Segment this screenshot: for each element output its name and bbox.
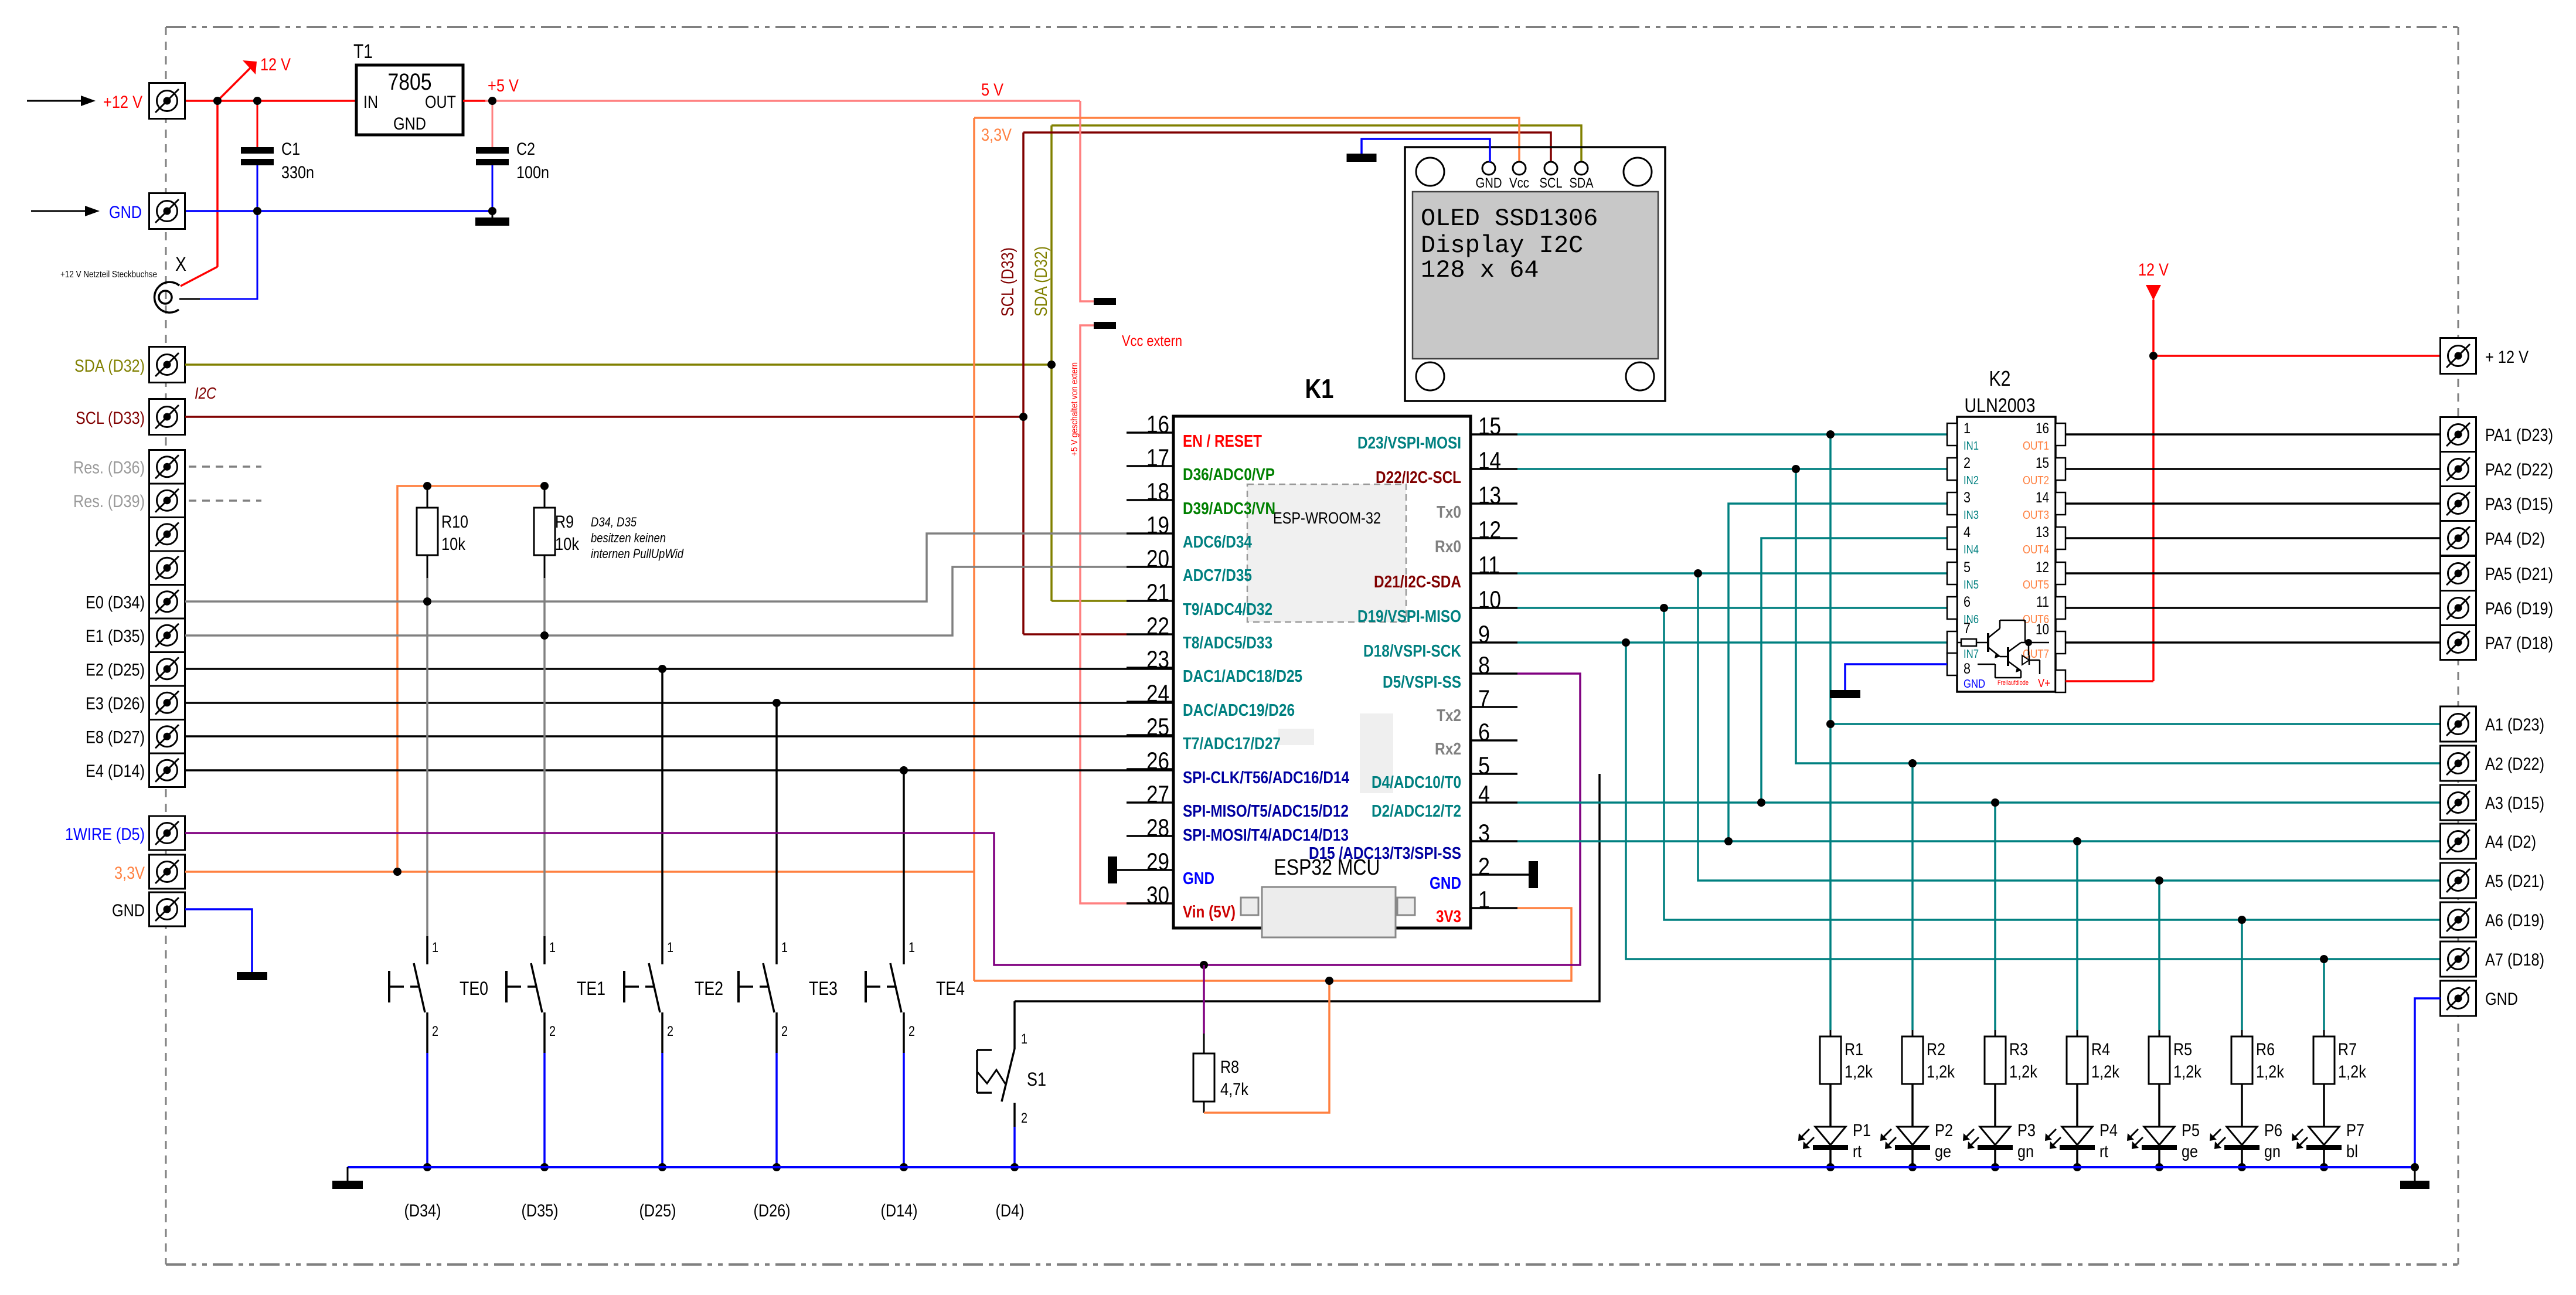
svg-text:GND: GND <box>393 114 426 134</box>
svg-text:D39/ADC3/VN: D39/ADC3/VN <box>1183 499 1275 518</box>
svg-text:PA1 (D23): PA1 (D23) <box>2485 426 2553 445</box>
svg-text:9: 9 <box>1478 620 1490 648</box>
svg-text:10k: 10k <box>555 535 580 554</box>
svg-text:ge: ge <box>2182 1142 2198 1161</box>
svg-text:SCL (D33): SCL (D33) <box>998 247 1018 317</box>
svg-text:Vcc extern: Vcc extern <box>1122 332 1182 349</box>
svg-text:I2C: I2C <box>195 384 217 402</box>
svg-text:30: 30 <box>1146 881 1169 909</box>
svg-text:1: 1 <box>1021 1031 1027 1047</box>
svg-text:1: 1 <box>432 940 438 956</box>
svg-text:internen PullUpWid: internen PullUpWid <box>591 546 684 561</box>
svg-text:D19/VSPI-MISO: D19/VSPI-MISO <box>1357 607 1461 626</box>
svg-text:21: 21 <box>1146 579 1169 606</box>
svg-text:2: 2 <box>1021 1110 1027 1126</box>
svg-text:IN1: IN1 <box>1964 440 1979 453</box>
svg-text:Display I2C: Display I2C <box>1421 232 1583 260</box>
svg-text:11: 11 <box>1478 551 1500 579</box>
svg-text:Res. (D39): Res. (D39) <box>73 492 145 511</box>
svg-text:T8/ADC5/D33: T8/ADC5/D33 <box>1183 634 1272 652</box>
svg-text:4,7k: 4,7k <box>1220 1080 1249 1099</box>
svg-text:SDA (D32): SDA (D32) <box>74 356 145 376</box>
svg-text:P7: P7 <box>2346 1121 2364 1140</box>
svg-text:D18/VSPI-SCK: D18/VSPI-SCK <box>1363 642 1461 661</box>
svg-text:ADC6/D34: ADC6/D34 <box>1183 533 1252 552</box>
svg-text:3: 3 <box>1478 819 1490 847</box>
svg-text:DAC/ADC19/D26: DAC/ADC19/D26 <box>1183 701 1295 720</box>
svg-text:Tx0: Tx0 <box>1437 503 1461 522</box>
svg-text:4: 4 <box>1478 780 1490 808</box>
svg-text:19: 19 <box>1146 511 1169 539</box>
svg-text:+12 V: +12 V <box>103 93 142 112</box>
svg-text:15: 15 <box>2036 455 2049 471</box>
svg-text:ESP-WROOM-32: ESP-WROOM-32 <box>1273 509 1381 527</box>
svg-text:GND: GND <box>109 203 142 222</box>
svg-text:1: 1 <box>1478 886 1490 913</box>
svg-text:1: 1 <box>781 940 788 956</box>
svg-text:K1: K1 <box>1305 373 1334 404</box>
svg-text:GND: GND <box>1476 175 1502 191</box>
svg-text:A3 (D15): A3 (D15) <box>2485 794 2544 813</box>
svg-text:R7: R7 <box>2338 1040 2357 1059</box>
svg-text:10k: 10k <box>441 535 466 554</box>
svg-text:V+: V+ <box>2038 677 2050 690</box>
svg-text:27: 27 <box>1146 780 1169 808</box>
svg-text:P6: P6 <box>2264 1121 2282 1140</box>
svg-text:ULN2003: ULN2003 <box>1965 395 2036 417</box>
svg-text:1,2k: 1,2k <box>2173 1062 2202 1082</box>
svg-text:OUT3: OUT3 <box>2023 509 2049 522</box>
svg-text:GND: GND <box>1964 678 1985 691</box>
svg-text:R10: R10 <box>441 512 468 532</box>
svg-text:TE4: TE4 <box>936 978 965 999</box>
svg-text:ADC7/D35: ADC7/D35 <box>1183 566 1252 585</box>
svg-text:3V3: 3V3 <box>1436 907 1461 926</box>
svg-text:+ 12 V: + 12 V <box>2485 348 2529 367</box>
svg-text:T9/ADC4/D32: T9/ADC4/D32 <box>1183 600 1272 619</box>
svg-text:1: 1 <box>549 940 556 956</box>
svg-text:SDA: SDA <box>1570 175 1594 191</box>
svg-text:GND: GND <box>1430 874 1461 893</box>
svg-text:GND: GND <box>112 901 145 920</box>
svg-text:11: 11 <box>2036 594 2049 610</box>
svg-text:X: X <box>175 253 186 276</box>
svg-text:gn: gn <box>2264 1142 2281 1161</box>
svg-text:(D4): (D4) <box>996 1201 1025 1221</box>
svg-text:7: 7 <box>1964 620 1971 637</box>
svg-text:TE1: TE1 <box>577 978 605 999</box>
svg-text:PA5 (D21): PA5 (D21) <box>2485 565 2553 584</box>
svg-text:IN: IN <box>363 93 378 112</box>
svg-text:1,2k: 1,2k <box>2256 1062 2285 1082</box>
svg-text:OUT2: OUT2 <box>2023 474 2049 487</box>
svg-text:15: 15 <box>1478 412 1501 440</box>
svg-text:R3: R3 <box>2009 1040 2028 1059</box>
svg-text:23: 23 <box>1146 645 1169 673</box>
svg-text:Freilaufdiode: Freilaufdiode <box>1997 679 2029 686</box>
svg-text:22: 22 <box>1146 612 1169 640</box>
svg-text:6: 6 <box>1964 594 1971 610</box>
svg-text:D22/I2C-SCL: D22/I2C-SCL <box>1376 468 1461 487</box>
svg-text:T7/ADC17/D27: T7/ADC17/D27 <box>1183 735 1281 753</box>
svg-text:R1: R1 <box>1845 1040 1863 1059</box>
svg-text:7: 7 <box>1478 685 1490 712</box>
svg-text:D4/ADC10/T0: D4/ADC10/T0 <box>1372 773 1461 792</box>
svg-text:E1 (D35): E1 (D35) <box>86 627 145 646</box>
svg-text:1: 1 <box>667 940 673 956</box>
svg-text:12: 12 <box>2036 559 2049 576</box>
svg-text:26: 26 <box>1146 747 1169 774</box>
svg-text:E3 (D26): E3 (D26) <box>86 694 145 713</box>
svg-text:24: 24 <box>1146 679 1169 707</box>
svg-text:A6 (D19): A6 (D19) <box>2485 911 2544 930</box>
svg-text:3,3V: 3,3V <box>114 864 145 883</box>
svg-text:gn: gn <box>2017 1142 2034 1161</box>
svg-text:E4 (D14): E4 (D14) <box>86 762 145 781</box>
svg-text:OLED SSD1306: OLED SSD1306 <box>1421 205 1598 233</box>
svg-text:P1: P1 <box>1853 1121 1871 1140</box>
svg-text:1,2k: 1,2k <box>1927 1062 1955 1082</box>
svg-text:D5/VSPI-SS: D5/VSPI-SS <box>1383 673 1461 692</box>
svg-text:20: 20 <box>1146 545 1169 572</box>
svg-text:3,3V: 3,3V <box>981 125 1012 145</box>
svg-text:3: 3 <box>1964 490 1971 506</box>
svg-text:rt: rt <box>2099 1142 2109 1161</box>
svg-text:12 V: 12 V <box>260 55 291 74</box>
svg-text:D36/ADC0/VP: D36/ADC0/VP <box>1183 465 1275 484</box>
svg-text:16: 16 <box>1146 410 1169 438</box>
svg-text:28: 28 <box>1146 814 1169 841</box>
svg-text:bl: bl <box>2346 1142 2358 1161</box>
svg-text:+5 V: +5 V <box>488 76 519 96</box>
svg-text:Vin (5V): Vin (5V) <box>1183 903 1236 922</box>
svg-text:2: 2 <box>432 1024 438 1039</box>
svg-text:SPI-CLK/T56/ADC16/D14: SPI-CLK/T56/ADC16/D14 <box>1183 769 1349 787</box>
svg-text:SCL: SCL <box>1540 175 1563 191</box>
svg-text:2: 2 <box>667 1024 673 1039</box>
svg-text:R2: R2 <box>1927 1040 1945 1059</box>
svg-text:R9: R9 <box>555 512 574 532</box>
svg-text:D23/VSPI-MOSI: D23/VSPI-MOSI <box>1357 434 1461 453</box>
svg-text:+12 V Netzteil Steckbuchse: +12 V Netzteil Steckbuchse <box>60 270 157 280</box>
svg-text:10: 10 <box>2036 621 2049 638</box>
svg-text:TE3: TE3 <box>809 978 838 999</box>
svg-text:D21/I2C-SDA: D21/I2C-SDA <box>1374 573 1461 592</box>
svg-text:TE0: TE0 <box>460 978 488 999</box>
svg-text:D15 /ADC13/T3/SPI-SS: D15 /ADC13/T3/SPI-SS <box>1309 844 1461 863</box>
svg-text:PA4 (D2): PA4 (D2) <box>2485 529 2545 549</box>
svg-text:1,2k: 1,2k <box>2091 1062 2120 1082</box>
svg-text:PA7 (D18): PA7 (D18) <box>2485 634 2553 653</box>
svg-text:P2: P2 <box>1935 1121 1953 1140</box>
svg-text:PA2 (D22): PA2 (D22) <box>2485 460 2553 480</box>
svg-text:4: 4 <box>1964 524 1971 541</box>
svg-text:A7 (D18): A7 (D18) <box>2485 950 2544 970</box>
svg-text:GND: GND <box>2485 990 2518 1009</box>
svg-text:1,2k: 1,2k <box>2009 1062 2038 1082</box>
svg-text:R8: R8 <box>1220 1058 1239 1077</box>
svg-text:SPI-MISO/T5/ADC15/D12: SPI-MISO/T5/ADC15/D12 <box>1183 802 1349 821</box>
svg-text:T1: T1 <box>353 40 373 63</box>
svg-text:Res. (D36): Res. (D36) <box>73 458 145 477</box>
svg-text:P4: P4 <box>2099 1121 2118 1140</box>
svg-text:(D25): (D25) <box>639 1201 676 1221</box>
svg-text:E0 (D34): E0 (D34) <box>86 593 145 612</box>
svg-text:SDA (D32): SDA (D32) <box>1032 246 1051 317</box>
svg-text:1WIRE (D5): 1WIRE (D5) <box>65 825 145 844</box>
svg-text:E2 (D25): E2 (D25) <box>86 660 145 679</box>
svg-text:A4 (D2): A4 (D2) <box>2485 832 2536 852</box>
svg-text:330n: 330n <box>281 163 314 182</box>
svg-text:(D35): (D35) <box>522 1201 559 1221</box>
svg-text:OUT1: OUT1 <box>2023 440 2049 453</box>
svg-text:1,2k: 1,2k <box>1845 1062 1873 1082</box>
svg-text:2: 2 <box>781 1024 788 1039</box>
svg-text:14: 14 <box>1478 447 1501 474</box>
svg-text:GND: GND <box>1183 869 1214 888</box>
svg-text:8: 8 <box>1964 661 1971 677</box>
svg-text:12: 12 <box>1478 516 1501 543</box>
svg-text:ge: ge <box>1935 1142 1951 1161</box>
svg-text:OUT5: OUT5 <box>2023 579 2049 592</box>
svg-text:IN4: IN4 <box>1964 543 1979 556</box>
svg-text:13: 13 <box>2036 524 2049 541</box>
svg-text:SPI-MOSI/T4/ADC14/D13: SPI-MOSI/T4/ADC14/D13 <box>1183 826 1349 845</box>
svg-text:OUT: OUT <box>425 93 456 112</box>
svg-text:29: 29 <box>1146 848 1169 875</box>
svg-text:IN7: IN7 <box>1964 648 1979 661</box>
svg-text:A1 (D23): A1 (D23) <box>2485 715 2544 735</box>
svg-text:14: 14 <box>2036 490 2049 506</box>
svg-text:Rx2: Rx2 <box>1435 740 1461 759</box>
svg-text:R6: R6 <box>2256 1040 2275 1059</box>
svg-text:R5: R5 <box>2173 1040 2192 1059</box>
svg-text:K2: K2 <box>1989 366 2011 390</box>
svg-text:D34, D35: D34, D35 <box>591 515 637 529</box>
svg-text:13: 13 <box>1478 481 1501 509</box>
svg-text:128 x 64: 128 x 64 <box>1421 256 1539 284</box>
svg-text:5: 5 <box>1478 752 1490 779</box>
svg-text:S1: S1 <box>1027 1069 1046 1090</box>
svg-text:6: 6 <box>1478 718 1490 746</box>
svg-text:Tx2: Tx2 <box>1437 706 1461 725</box>
svg-text:12 V: 12 V <box>2138 260 2169 280</box>
svg-text:A2 (D22): A2 (D22) <box>2485 754 2544 774</box>
svg-text:(D34): (D34) <box>404 1201 441 1221</box>
svg-text:10: 10 <box>1478 586 1501 613</box>
svg-text:8: 8 <box>1478 651 1490 679</box>
svg-text:P5: P5 <box>2182 1121 2200 1140</box>
svg-text:PA6 (D19): PA6 (D19) <box>2485 599 2553 618</box>
svg-text:(D26): (D26) <box>754 1201 791 1221</box>
svg-text:(D14): (D14) <box>881 1201 918 1221</box>
svg-text:EN / RESET: EN / RESET <box>1183 432 1262 451</box>
svg-text:rt: rt <box>1853 1142 1862 1161</box>
svg-text:17: 17 <box>1146 444 1169 471</box>
svg-text:5 V: 5 V <box>981 80 1003 100</box>
svg-text:PA3 (D15): PA3 (D15) <box>2485 495 2553 514</box>
svg-text:5: 5 <box>1964 559 1971 576</box>
svg-text:SCL (D33): SCL (D33) <box>76 409 145 428</box>
svg-text:IN5: IN5 <box>1964 579 1979 592</box>
svg-text:18: 18 <box>1146 478 1169 505</box>
svg-text:TE2: TE2 <box>695 978 723 999</box>
svg-text:2: 2 <box>1478 852 1490 880</box>
svg-text:D2/ADC12/T2: D2/ADC12/T2 <box>1372 802 1461 821</box>
svg-text:1: 1 <box>1964 420 1971 437</box>
svg-text:1: 1 <box>908 940 915 956</box>
svg-text:OUT4: OUT4 <box>2023 543 2049 556</box>
svg-text:C2: C2 <box>516 140 535 159</box>
svg-text:16: 16 <box>2036 420 2049 437</box>
svg-text:Vcc: Vcc <box>1509 175 1529 191</box>
svg-text:A5 (D21): A5 (D21) <box>2485 872 2544 891</box>
svg-text:IN3: IN3 <box>1964 509 1979 522</box>
svg-text:25: 25 <box>1146 713 1169 740</box>
svg-text:C1: C1 <box>281 140 300 159</box>
svg-text:Rx0: Rx0 <box>1435 538 1461 556</box>
svg-text:2: 2 <box>908 1024 915 1039</box>
svg-text:E8 (D27): E8 (D27) <box>86 728 145 747</box>
svg-text:P3: P3 <box>2017 1121 2036 1140</box>
svg-text:7805: 7805 <box>388 69 432 95</box>
svg-text:100n: 100n <box>516 163 549 182</box>
svg-text:2: 2 <box>549 1024 556 1039</box>
svg-text:1,2k: 1,2k <box>2338 1062 2367 1082</box>
svg-text:2: 2 <box>1964 455 1971 471</box>
svg-text:IN2: IN2 <box>1964 474 1979 487</box>
svg-text:R4: R4 <box>2091 1040 2110 1059</box>
svg-text:DAC1/ADC18/D25: DAC1/ADC18/D25 <box>1183 667 1302 686</box>
svg-text:besitzen keinen: besitzen keinen <box>591 531 666 545</box>
svg-text:+5 V geschaltet von extern: +5 V geschaltet von extern <box>1070 362 1080 456</box>
